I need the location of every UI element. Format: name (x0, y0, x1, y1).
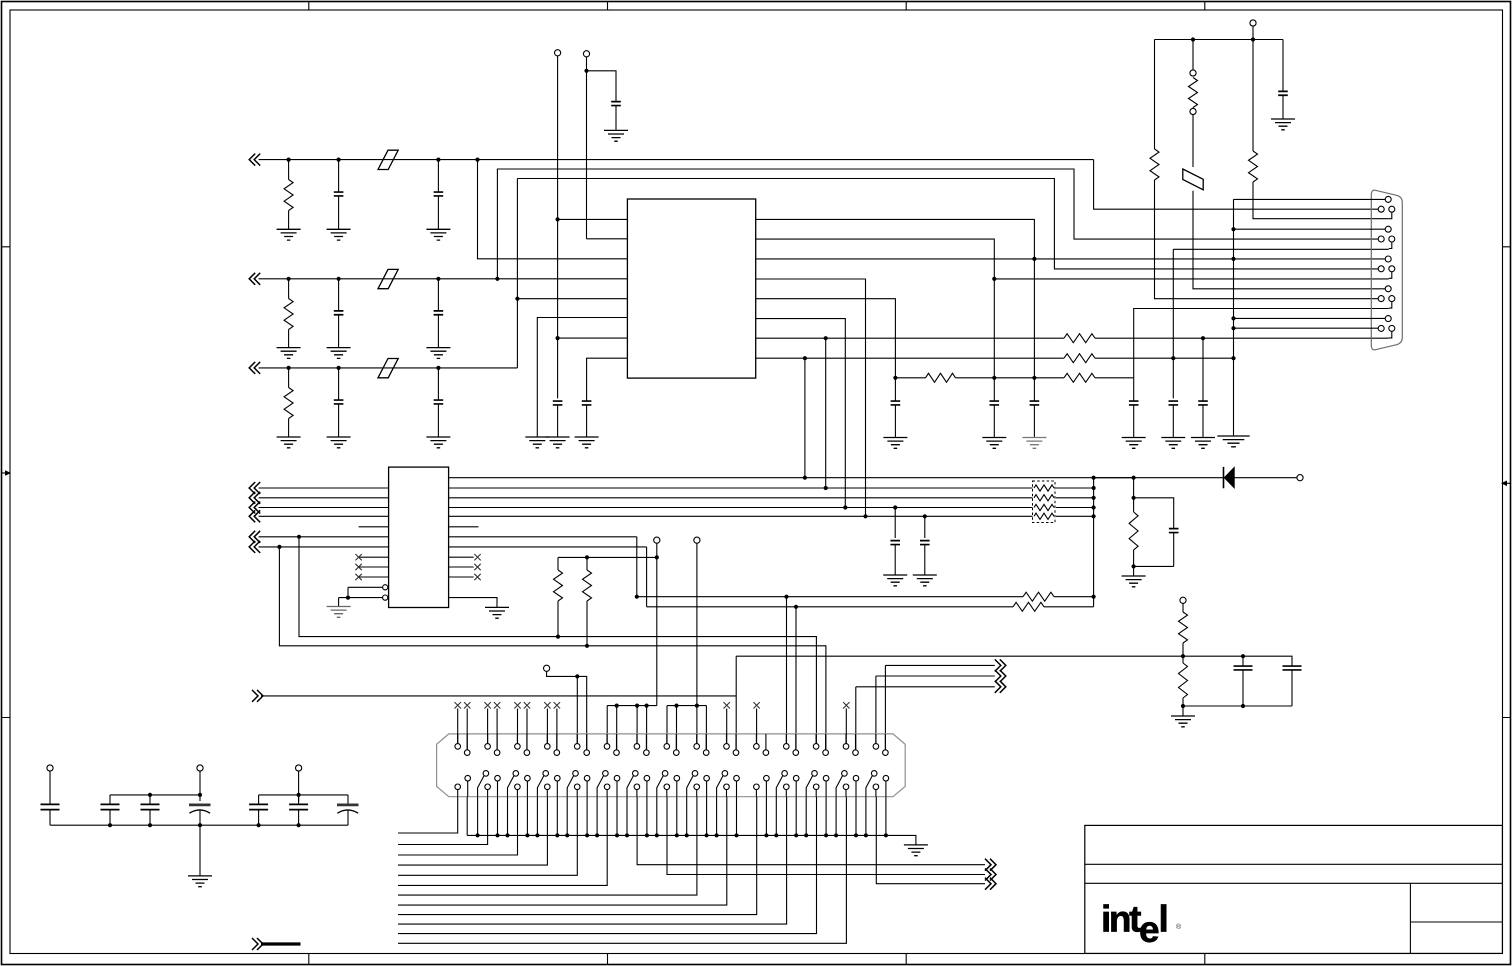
wire U1 pin16 (y358) right (756, 357, 1064, 359)
wire RC cap branch (1134, 498, 1174, 529)
junction A at U1 pin7 wire (556, 336, 560, 340)
wire terminal D down (656, 543, 658, 705)
junction single-g3 at ground bus (1231, 257, 1235, 261)
connector J1 no-connect pins with X marks (457, 709, 459, 745)
bus entry arrow row 3 (249, 362, 260, 374)
junction pin9/pin11 merge (1032, 257, 1036, 261)
stub 6B (616, 706, 618, 749)
wire R15 to DB hook g1 (1253, 182, 1389, 219)
wire bubble tie (347, 587, 349, 597)
capacitor C4 under terminal A (553, 401, 563, 405)
intel logo (1101, 899, 1182, 951)
output arrow O2 (995, 670, 1006, 682)
junction rail at R17 top (585, 555, 589, 559)
resistor R16 (557, 557, 559, 570)
wire bus3 cap tap (893, 505, 897, 509)
capacitor C20 (258, 795, 260, 804)
wire net W4 (y606.8) (647, 606, 1013, 608)
wire W5 bottom (1183, 705, 1292, 707)
wire U1 pin14 (y318) down to bus3 (756, 319, 846, 508)
wire gnd bus to single g2 (1234, 228, 1386, 230)
junction at bus3 (843, 505, 847, 509)
wire pin15 drop to bus2 (825, 338, 827, 488)
wire thick bus stub (261, 942, 301, 945)
resistor RP1 element 3 (1034, 504, 1054, 510)
wire pin12A riser (786, 597, 788, 744)
wire U1 pin6 left (537, 318, 627, 438)
capacitor C25 (920, 541, 930, 545)
resistor R3a pulldown row 3 (287, 366, 291, 370)
junction W5 x1243 (1241, 654, 1245, 658)
junction C20 at bus (257, 823, 261, 827)
wire gnd bus to pair g5 (1234, 327, 1379, 329)
wire J1 fan line 1 (398, 797, 458, 833)
stub 7A (636, 706, 638, 744)
title block outline (1085, 825, 1503, 953)
wire U1 pin13 (y299) down to RC node (756, 299, 896, 378)
capacitor C2b row 2 (436, 277, 440, 281)
connector J1 ground bus junctions (476, 833, 480, 837)
capacitor C21 (298, 795, 300, 804)
wire row2 horizontal (net RX2) (259, 278, 628, 280)
capacitor C1b row 1 (436, 158, 440, 162)
wire RC row (895, 377, 925, 379)
fuse F1 with terminals (1190, 70, 1196, 76)
ground under C8 (1022, 438, 1046, 449)
junction 6B (615, 704, 619, 708)
junction RC tap split (1132, 496, 1136, 500)
wire row1 to DB pair g1 (1094, 160, 1379, 210)
wire row4 (259, 536, 637, 538)
junction at bus1 (803, 476, 807, 480)
wire J1 fan line 12 (398, 797, 846, 944)
wire ferrite to DB single g4 (1193, 191, 1385, 289)
ground under R21 (1171, 716, 1195, 727)
wire RC gnd stub (1133, 566, 1135, 576)
junction bus line 1 right (1092, 486, 1096, 490)
svg-text:®: ® (1176, 923, 1182, 931)
ground under C3b (426, 437, 450, 448)
polarized capacitor C22 (337, 804, 359, 807)
U2 inverter bubble pin 2 (383, 595, 388, 600)
wire terminal K down (199, 771, 201, 801)
junction 9A (695, 704, 699, 708)
capacitor C11 at x1203 (1202, 338, 1204, 401)
resistor R18 (1023, 592, 1054, 601)
wire to U1 pin2 (587, 238, 628, 240)
connector J2 DB15 outline (1371, 190, 1402, 350)
wire row4 drop2 (636, 537, 638, 597)
wire U1 pin7 left (558, 337, 628, 339)
capacitor C8 at x1034 (1033, 378, 1035, 401)
ground under R1a (277, 229, 301, 240)
output arrow O1 (995, 659, 1006, 671)
junction bus line 3 right (1092, 505, 1096, 509)
resistor R10 on hook-g5 net (1064, 334, 1095, 343)
bus entry arrow row 2 (249, 273, 260, 285)
wire hook-g2 riser with cap (1172, 249, 1174, 398)
wire U2 bus line 3 (259, 507, 1033, 509)
bus entry arrow row5 (249, 541, 260, 553)
capacitor C14 (1291, 664, 1293, 667)
wire row5 (259, 546, 647, 548)
ground at x586 (575, 437, 599, 448)
wire hook-g5 to DB (1095, 337, 1389, 339)
junction bus line 2 right (1092, 496, 1096, 500)
title block line 1 (1085, 863, 1503, 865)
junction termination cap tap (1171, 356, 1175, 360)
resistor R20 (1182, 604, 1184, 613)
ground under R2a (277, 348, 301, 359)
wire output net O6 (667, 797, 985, 875)
capacitor C23 at x586 (582, 401, 592, 405)
ground U2 left (327, 607, 351, 618)
junction rail at x1193 (1191, 37, 1195, 41)
ferrite bead FB3 row 3 (378, 359, 398, 378)
wire cap link 2 (259, 794, 348, 796)
U2 right NC pin 1 (449, 556, 474, 558)
capacitor C3b row 3 (436, 366, 440, 370)
wire row3 horizontal (net RX3) (259, 367, 518, 369)
ground under R22 (1122, 576, 1146, 587)
stub 9A (696, 706, 698, 744)
svg-text:int: int (1101, 899, 1141, 940)
wire J1 ground bus (467, 835, 916, 845)
wire output net O3 (856, 686, 995, 688)
wire cap link 1 (110, 794, 200, 796)
junction A at U1 pin1 (556, 217, 560, 221)
wire hook-g3 from merge (994, 278, 1389, 280)
wire row2 riser to DB pair g2 (497, 169, 1378, 279)
connector J1 outline (437, 734, 906, 797)
U2 float stub left (359, 526, 389, 528)
junction RC node C (1032, 376, 1036, 380)
border tick marks left/right (2, 247, 1511, 718)
terminal post C (1250, 20, 1256, 26)
ground under C10 (1161, 438, 1185, 449)
output arrow O7 (985, 878, 996, 890)
wire termination to ground bus (1095, 357, 1234, 359)
wire gnd bus to single g1 (1234, 198, 1386, 200)
border arrow right (1507, 482, 1511, 484)
ground under C11 (1191, 438, 1215, 449)
wire U2 bus line 1 (259, 487, 1033, 489)
wire RC bottom (1134, 565, 1174, 567)
wire cap bank bus (50, 824, 348, 826)
terminal post F (544, 665, 550, 671)
junction link1 at C18 (148, 793, 152, 797)
capacitor C10 at x1173 (1169, 401, 1179, 405)
terminal post H (1297, 475, 1303, 481)
wire output net O2 (876, 675, 995, 677)
wire net W3 (y596.7) (637, 596, 1023, 598)
ground under C1b (426, 229, 450, 240)
resistor R17 (586, 557, 588, 570)
resistor RP1 element 1 (1034, 485, 1054, 491)
bus entry arrow U2 line 1 (249, 482, 260, 494)
capacitor C15 (1169, 529, 1179, 533)
junction 8B (674, 704, 678, 708)
ground at x537 (525, 437, 549, 448)
junction row3 riser at U1 pin5 (515, 297, 519, 301)
wire pullup top rail (558, 556, 657, 558)
terminal post J (47, 765, 53, 771)
resistor R1a pulldown row 1 (287, 158, 291, 162)
wire O2 drop to pin15A (875, 676, 877, 744)
wire U2 left gnd (338, 598, 340, 607)
wire bus4 cap tap (923, 514, 927, 518)
U2 left NC pin 3 (359, 576, 389, 578)
resistor RP1 element 2 (1034, 495, 1054, 501)
title block line 3 (1410, 921, 1502, 923)
bus exit arrow net O4 (252, 690, 263, 702)
junction diode rail RC tap (1132, 476, 1136, 480)
wire J1 fan line 2 (398, 797, 488, 845)
wire row1 drop to U1 pin3 (478, 160, 628, 259)
capacitor C9 at x1133 (1133, 378, 1135, 401)
U2 right NC pin 3 (449, 576, 474, 578)
wire U2 bus line 4 (259, 515, 1033, 517)
polarized capacitor C19 (189, 804, 211, 807)
capacitor C12 top right (1278, 91, 1288, 95)
junction W5 x1183 (1181, 654, 1185, 658)
junction C19 at bus (198, 823, 202, 827)
wire net W5 long (736, 656, 1292, 663)
wire row5 drop2 (646, 547, 648, 607)
wire output net O5 (637, 797, 985, 865)
terminal post B top (583, 51, 589, 57)
ground under C12 (1271, 119, 1295, 130)
terminal post A top (555, 50, 561, 56)
ferrite bead FB2 row 2 (378, 269, 398, 288)
junction at bus2 (824, 486, 828, 490)
wire J1 fan line 5 (398, 797, 577, 876)
ground under C1a (327, 229, 351, 240)
junction C21 at bus (297, 823, 301, 827)
resistor R2a pulldown row 2 (287, 277, 291, 281)
junction W5b x1183 (1181, 704, 1185, 708)
connector J2 hook leads (1389, 212, 1392, 338)
connector J1 grounded pin leads (477, 797, 479, 836)
output arrow O5 (985, 859, 996, 871)
wire output net O1 (885, 664, 994, 666)
wire U1 pin15 (y338) right (756, 337, 1064, 339)
junction rail at x1253 (1251, 37, 1255, 41)
wire J1 fan line 4 (398, 797, 547, 865)
ground under C2b (426, 348, 450, 359)
U2 left NC pin 2 (359, 566, 389, 568)
wire J1 fan line 9 (398, 797, 757, 915)
terminal post E (694, 537, 700, 543)
capacitor C6 at x895 (894, 378, 896, 401)
junction W5b x1243 (1241, 704, 1245, 708)
resistor R21 (1179, 663, 1188, 698)
wire R14 to DB pair g4 (1155, 180, 1379, 299)
junction pin15 drop (824, 336, 828, 340)
ferrite bead FB1 row 1 (378, 150, 398, 169)
wire terminal B down (586, 57, 588, 239)
wire U1 pin10 (y239) right (756, 239, 995, 378)
wire O3 drop to pin14B (855, 687, 857, 749)
wire U2 top-right pin (net V1) (449, 477, 1134, 479)
junction B branch (584, 69, 588, 73)
ferrite bead FB4 (1183, 169, 1203, 190)
junction K at link1 (198, 793, 202, 797)
wire net W1 (row4 drop) (299, 537, 816, 744)
junction W3 left (635, 595, 639, 599)
terminal post L (296, 765, 302, 771)
junction L at link2 (297, 793, 301, 797)
ground under C5 (604, 130, 628, 141)
jumper pins 6A-7B (607, 705, 657, 707)
title block line 2 (1085, 882, 1503, 884)
wire J1 fan line 8 (398, 797, 727, 905)
wire fuse to ferrite (1192, 115, 1194, 167)
ground U2 right (485, 607, 509, 618)
capacitor C1a row 1 (337, 158, 341, 162)
resistor R11 on termination net (1064, 354, 1095, 363)
wire row3 riser (516, 179, 518, 368)
wire net O4 (261, 695, 736, 697)
wire row1 horizontal (net RX1) (259, 159, 1094, 161)
resistor R15 right branch (1252, 40, 1254, 152)
junction V1 at x1093 (1092, 476, 1096, 480)
wire pin 5A drop (576, 676, 578, 744)
wire B branch to C5 (587, 71, 617, 102)
wire pin12B riser (795, 607, 797, 749)
IC U1 body (627, 199, 755, 378)
bus entry arrow row 1 (249, 154, 260, 166)
bus entry arrow U2 line 2 (249, 492, 260, 504)
wire RC tap down (1133, 478, 1135, 498)
wire hook-g2 to DB (1173, 248, 1389, 250)
wire C19 gnd (199, 825, 201, 876)
ground big under DB bus (1217, 436, 1249, 447)
capacitor C24 (890, 541, 900, 545)
ground under C9 (1122, 438, 1146, 449)
junction termination at ground bus (1231, 356, 1235, 360)
ground cap bank (188, 876, 212, 887)
junction pin16 drop (803, 356, 807, 360)
output arrow O3 (995, 681, 1006, 693)
wire diode rail (1094, 477, 1224, 479)
junction tie y596 (1092, 595, 1096, 599)
capacitor C18 (149, 795, 151, 804)
wire U1 pin9 (y219) right (756, 219, 1035, 377)
wire J1 fan line 11 (398, 797, 817, 934)
junction bubble tie (346, 596, 350, 600)
U2 right NC pin 2 (449, 566, 474, 568)
wire J1 fan line 10 (398, 797, 787, 924)
wire net W2 (row5 drop) (279, 547, 826, 749)
resistor pack RP1 dashed box (1033, 481, 1056, 523)
wire pin16 drop to bus1 (804, 358, 806, 478)
wire terminal C stub (1252, 26, 1254, 39)
resistor R22 (1133, 498, 1135, 512)
wire U1 pin8 left (587, 358, 628, 401)
wire gnd bus to single g5 (1234, 317, 1386, 319)
terminal post K (197, 765, 203, 771)
ground under C24 (883, 575, 907, 586)
border arrow left (2, 472, 7, 474)
U2 float stub right (449, 526, 479, 528)
junction hook-g5 cap tap (1201, 336, 1205, 340)
junction C18 at bus (148, 823, 152, 827)
wire row3 to DB pair g3 (517, 179, 1378, 269)
junction row4 (297, 535, 301, 539)
junction C17 at bus (108, 823, 112, 827)
IC U2 body (389, 467, 449, 607)
ground under R3a (277, 437, 301, 448)
U2 inverter bubble pin 1 (383, 585, 388, 590)
junction rail at x656 (655, 555, 659, 559)
junction 7A (635, 704, 639, 708)
wire U2 right gnd pin (449, 598, 497, 608)
bus entry arrow U2 line 3 (249, 502, 260, 514)
junction bus line 4 right (1092, 514, 1096, 518)
resistor R19 (1013, 602, 1044, 611)
title block divider (1409, 883, 1411, 953)
svg-text:e: e (1139, 909, 1160, 950)
capacitor C16 (49, 771, 51, 804)
wire O1 drop to pin15B (884, 665, 886, 749)
capacitor C5 (611, 102, 621, 106)
wire pin2 lead (466, 797, 468, 836)
ground under C3a (327, 437, 351, 448)
ground under C25 (913, 575, 937, 586)
capacitor C13 (1242, 656, 1244, 666)
stub 7B (646, 706, 648, 749)
junction pin10/pin12 merge (992, 277, 996, 281)
wire U1 pin11 (y259) to DB single g3 (756, 258, 1385, 260)
wire terminal F to pins 5A/5B (547, 672, 587, 750)
resistor RP1 element 4 (1034, 513, 1054, 519)
wire top-right rail (1155, 39, 1284, 41)
junction W1 at R16 (556, 635, 560, 639)
stub 9B (705, 706, 707, 749)
junction row2 at x497 (495, 277, 499, 281)
stub 8B (676, 706, 678, 749)
ground J1 bus (904, 845, 928, 856)
wire row3 to U1 pin5 (517, 298, 627, 300)
junction W3 at pin12A (784, 595, 788, 599)
terminal post D (654, 537, 660, 543)
capacitor C3a row 3 (337, 366, 341, 370)
diode CR1 (1223, 467, 1225, 488)
wire gnd stub (1182, 706, 1184, 716)
wire terminal A down (557, 56, 559, 398)
connector J1 bottom row pin circles (455, 784, 461, 790)
junction at bus4 (863, 514, 867, 518)
junction RC bottom (1132, 564, 1136, 568)
junction gnd bus g5s (1231, 316, 1235, 320)
junction RC node A (893, 376, 897, 380)
wire J1 fan line 7 (398, 797, 697, 895)
wire to U1 pin1 (558, 218, 628, 220)
terminal post G (1180, 597, 1186, 603)
DB ground bus vertical (1233, 199, 1235, 436)
junction 7B (645, 704, 649, 708)
ground under C6 (883, 438, 907, 449)
junction RC node B (992, 376, 996, 380)
capacitor C2a row 2 (337, 277, 341, 281)
wire J1 fan line 3 (398, 797, 518, 855)
resistor R12 (926, 373, 956, 382)
bus entry arrow row4 (249, 531, 260, 543)
wire diode to terminal (1234, 477, 1297, 479)
junction gnd bus g2 (1231, 227, 1235, 231)
ground under C4 (546, 437, 570, 448)
